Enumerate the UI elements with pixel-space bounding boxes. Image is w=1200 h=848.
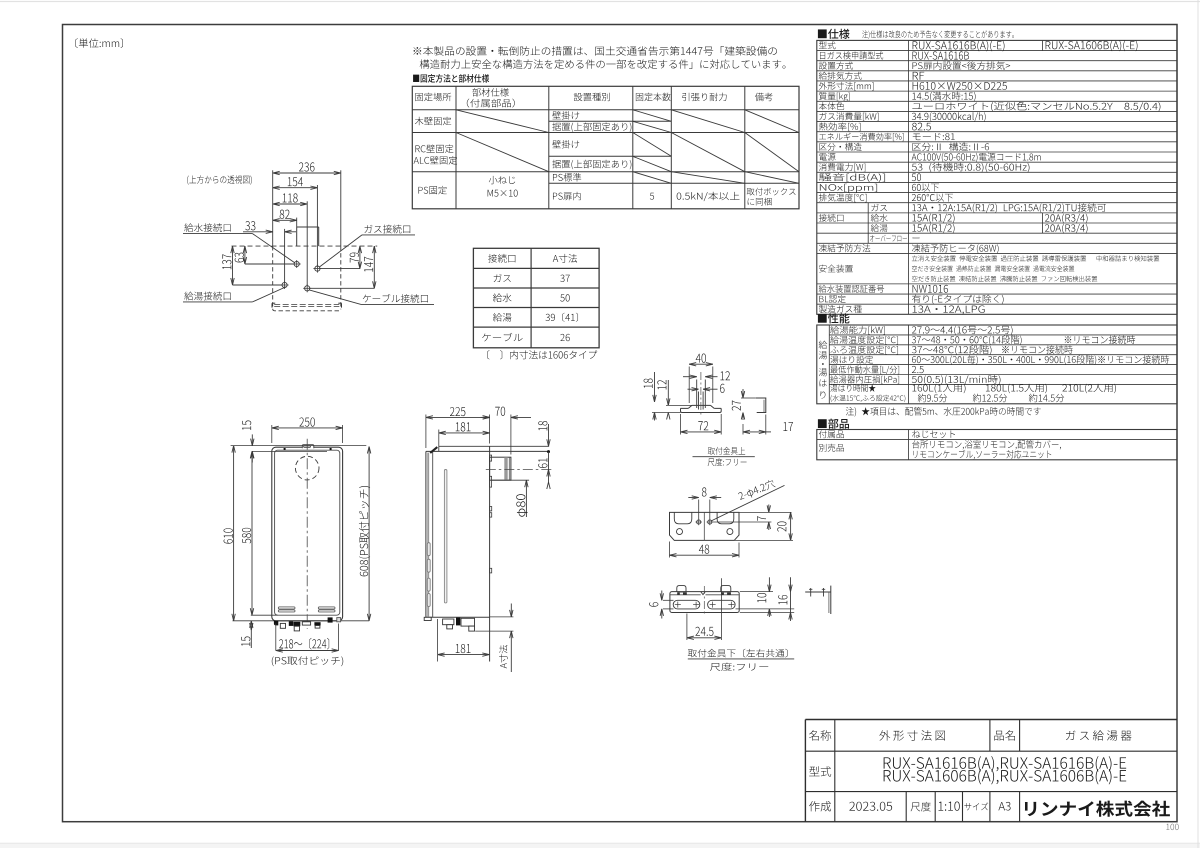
spec label gastype: [819, 305, 862, 313]
bracket-low plan hole callout: [711, 479, 785, 521]
side front inner line: [432, 452, 434, 617]
spec value class: [913, 143, 990, 151]
side dim A-size: [475, 604, 513, 673]
plan dim 154: [273, 177, 318, 189]
spec label color: [819, 102, 844, 110]
bracket-low plan dim 8: [688, 487, 721, 519]
hot water connection mark: [281, 281, 289, 289]
title model line2: [884, 769, 1127, 784]
side duct bottom ext: [492, 479, 529, 481]
performance value filling time: [912, 384, 1116, 402]
performance label r5: [830, 375, 899, 384]
parts value optional line2: [913, 450, 1051, 459]
front vent slots left: [278, 607, 295, 612]
spec section title: [818, 29, 1014, 39]
spec value conn hotwater 20A: [1045, 224, 1088, 234]
performance value r0: [912, 326, 1013, 335]
performance side label: [819, 341, 828, 399]
bracket-low front dim 24.5: [687, 578, 722, 640]
bracket-top dim 40: [689, 354, 713, 403]
parts value accessories: [912, 430, 955, 438]
title created date: [849, 802, 892, 811]
connection table footnote: [487, 350, 597, 359]
connection size table texts: [482, 254, 578, 341]
front label PS pitch: [272, 656, 343, 666]
bracket-low front centerline: [703, 586, 705, 616]
regulation note line1: [414, 46, 777, 56]
connection size table grid: [473, 248, 599, 347]
spec value noise: [912, 173, 921, 181]
spec label nichigas: [820, 51, 883, 59]
plan dim 82: [273, 210, 297, 222]
spec value model2: [1046, 40, 1138, 51]
performance label r2: [830, 346, 898, 355]
plan dim ext lines vertical: [273, 170, 341, 288]
spec value conn water 20A: [1045, 214, 1088, 224]
spec label model: [819, 41, 836, 49]
performance label r4: [830, 366, 899, 375]
spec label consumption: [819, 163, 865, 172]
spec label bl: [819, 295, 845, 303]
spec value install: [913, 61, 1011, 69]
plan dim 147: [307, 246, 376, 288]
label hot water: [183, 287, 286, 302]
spec value gasuse: [912, 112, 986, 122]
title item name: [1066, 730, 1132, 740]
spec label eff: [819, 122, 861, 131]
front ext line screw plane: [252, 450, 327, 452]
front centerline: [306, 439, 308, 629]
side ext bottom right: [490, 616, 514, 618]
side long vent slot: [444, 470, 447, 603]
spec value safety line2: [912, 266, 1074, 272]
spec value certno: [913, 285, 948, 293]
spec label noise: [819, 173, 885, 182]
bracket-low front dim 6: [649, 591, 673, 619]
side front edge slots: [427, 543, 430, 607]
front dim 15 bottom: [241, 621, 253, 648]
bracket-top dim 12 left: [657, 380, 692, 421]
spec value safety line3: [912, 276, 1097, 282]
fixing table title: [413, 74, 489, 83]
bracket-low front tabs: [677, 586, 731, 592]
spec value model1: [913, 41, 1005, 52]
title scale label: [911, 802, 931, 812]
bracket-low plan notches: [674, 512, 734, 523]
front bottom left mount tab: [274, 621, 278, 626]
label cable: [309, 290, 434, 305]
plan view front cover dashed plate: [272, 303, 342, 307]
performance label r1: [830, 336, 898, 345]
spec label power: [819, 153, 835, 161]
page top edge line: [0, 1, 1200, 3]
spec label dims: [819, 82, 874, 91]
front ext line 580 bottom: [251, 614, 278, 616]
bracket-low plan outline: [670, 512, 740, 540]
title created label: [809, 801, 831, 811]
spec table grid: [817, 40, 1177, 314]
parts value optional line1: [912, 440, 1061, 449]
bracket-top dim 72: [681, 414, 722, 435]
spec label airway: [819, 72, 862, 80]
bracket-top base plate: [681, 405, 722, 412]
bracket-top dim 6 slot: [688, 384, 725, 393]
bracket-top side dim 27: [732, 389, 756, 420]
spec value conn overflow: [912, 237, 919, 240]
cable connection mark: [303, 284, 311, 292]
fixing table header texts: [415, 88, 772, 107]
bracket-low plan dim 20: [735, 512, 794, 540]
plan dim 79: [317, 246, 361, 269]
label gas: [319, 225, 415, 267]
spec sublabel hotwater: [871, 224, 888, 232]
title block grid: [805, 720, 1177, 822]
spec value nichigas: [913, 51, 970, 59]
title company name: [1025, 801, 1170, 817]
side top mount bracket mark: [430, 447, 437, 453]
fixing table body texts: [414, 111, 796, 205]
side dim 18: [538, 421, 550, 446]
bracket-low side view: [805, 586, 831, 614]
front dim 15 top: [242, 421, 254, 463]
spec value color: [912, 102, 1160, 111]
title size value: [998, 802, 1010, 811]
bracket-low plan corner holes: [677, 529, 733, 535]
bracket-top centerline: [700, 372, 702, 415]
side body outline: [426, 446, 490, 661]
spec value safety line1: [912, 255, 1159, 261]
front vent slots right: [318, 607, 335, 612]
side dim 181 top: [439, 422, 490, 446]
unit note: [75, 38, 122, 48]
spec label connections: [819, 214, 844, 222]
front pipe stub C: [293, 622, 300, 631]
front dim 250: [272, 417, 343, 443]
plan view exhaust duct (solid): [297, 227, 319, 246]
spec label energy: [819, 133, 903, 141]
spec value conn gas: [912, 203, 1106, 213]
spec label install: [819, 62, 853, 70]
front dim 610: [224, 446, 236, 621]
spec value bl: [912, 295, 1004, 304]
parts section title: [818, 419, 849, 429]
spec value energy: [913, 133, 955, 140]
spec label nox: [820, 184, 877, 193]
page number: [1166, 824, 1178, 830]
spec label safety: [819, 265, 853, 273]
spec value nox: [912, 183, 939, 191]
spec value antifreeze: [912, 244, 999, 253]
front ext line top bracket plane: [231, 445, 367, 447]
side dim 225: [426, 407, 490, 448]
spec value exhtemp: [912, 194, 953, 202]
front exhaust dashed circle: [295, 456, 319, 480]
front dim 608 PS pitch: [359, 447, 371, 621]
performance value r4: [912, 366, 924, 373]
title model label: [809, 766, 831, 776]
bracket-low front top seam: [670, 592, 739, 595]
title scale value: [939, 801, 960, 810]
bracket-low front slot ticks: [675, 602, 735, 608]
plan dim 63: [235, 246, 297, 264]
bracket-low front slots: [673, 600, 735, 609]
page right edge line: [1197, 0, 1199, 848]
bracket-top side view: [756, 398, 766, 413]
performance label r3: [830, 356, 873, 364]
title drawing name: [879, 730, 945, 741]
title name label: [809, 730, 831, 740]
spec value conn water: [912, 213, 954, 223]
side dim 61: [538, 452, 550, 489]
spec label exhtemp: [819, 193, 867, 202]
spec label class: [819, 143, 861, 151]
spec value airway: [913, 72, 925, 80]
spec label certno: [819, 285, 884, 293]
title item label: [994, 730, 1015, 740]
spec value conn hotwater: [912, 224, 954, 234]
bracket-low plan dim 48: [670, 542, 740, 558]
performance value r5: [912, 375, 1001, 385]
spec sublabel overflow: [870, 235, 907, 242]
parts table grid: [817, 430, 1177, 460]
plan dim 118: [273, 193, 308, 205]
front dim 218 pitch: [276, 624, 339, 653]
side dim 70: [481, 407, 532, 455]
spec value gastype: [913, 306, 985, 315]
bracket-low plan dim 7: [713, 505, 792, 531]
plan dim 33: [243, 221, 296, 233]
plan view body dashed outline: [273, 246, 341, 311]
side back clips: [490, 507, 492, 573]
side bottom pipes: [424, 617, 474, 631]
performance footnote: [846, 407, 1041, 417]
side exhaust duct: [490, 455, 511, 487]
spec sublabel water: [871, 214, 888, 222]
bracket-top side dim 17: [743, 415, 793, 435]
performance label r0: [830, 326, 885, 335]
water supply connection mark: [293, 260, 301, 268]
plan view caption: [187, 175, 252, 184]
spec label weight: [819, 92, 850, 101]
side dim 181 bottom: [438, 619, 490, 662]
title size label: [964, 802, 988, 810]
performance label filling time: [830, 384, 905, 402]
front pipe stub B black: [289, 621, 293, 626]
bracket-low front dim 10: [736, 577, 795, 617]
front top screw dots: [284, 448, 332, 450]
performance value r1: [912, 335, 1135, 345]
spec value eff: [912, 123, 931, 131]
spec label antifreeze: [819, 244, 870, 252]
front ext line bottom: [233, 620, 370, 622]
bracket-low plan screw holes: [696, 519, 714, 525]
side top plate: [426, 446, 550, 453]
parts label accessories: [819, 430, 844, 438]
front pipe stub D: [302, 622, 310, 625]
plan dim 137: [222, 246, 284, 285]
front body outer panel: [272, 447, 343, 621]
spec label gasuse: [819, 112, 878, 121]
front bottom right mount tab: [328, 617, 341, 622]
side dim phi80: [516, 480, 528, 517]
page bottom edge strip: [0, 843, 1200, 848]
front pipe stub A: [280, 623, 285, 628]
spec value dims: [913, 82, 1007, 90]
front top hanger bracket: [302, 445, 314, 449]
title model line1: [884, 756, 1127, 771]
performance section title: [818, 313, 850, 323]
label water supply: [183, 223, 295, 262]
front dim 580: [242, 451, 254, 615]
side front edge gray: [427, 453, 429, 617]
bracket-top dim 18 left: [644, 372, 681, 421]
bracket-top slot lines: [697, 380, 706, 410]
spec value consumption: [912, 163, 1030, 173]
performance value r2: [912, 345, 1073, 355]
spec sublabel gas: [871, 204, 886, 211]
gas connection mark: [313, 265, 321, 273]
performance value r3: [912, 355, 1169, 364]
spec value power: [912, 153, 1041, 163]
bracket-low front dim 16: [740, 577, 794, 621]
bracket-low label: [688, 649, 794, 671]
fixing table diagonal slashes: [456, 110, 799, 184]
parts label optional: [819, 444, 844, 452]
plan dim 236: [273, 162, 341, 174]
fixing table grid: [412, 86, 799, 209]
bracket-low front plate: [670, 592, 739, 613]
plan view wall dashed line: [232, 245, 378, 247]
bracket-top dim 12 slot: [683, 371, 730, 380]
regulation note line2: [420, 59, 786, 68]
bracket-low plan center seam: [703, 512, 705, 540]
spec value weight: [912, 92, 975, 102]
front pipe stub E: [314, 622, 320, 628]
bracket-top label: [693, 447, 755, 466]
front body inner panel: [275, 450, 340, 615]
side duct centerline: [486, 469, 552, 471]
performance table grid: [817, 325, 1177, 404]
